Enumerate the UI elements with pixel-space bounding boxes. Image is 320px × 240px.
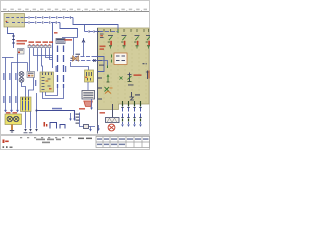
lower feed label [71,58,76,59]
heater element N24 resistor [106,118,120,123]
wire arrow x98.5 [97,125,100,131]
relay plate J519 box [4,14,25,28]
tiny text lower-left of box [99,65,104,66]
wire bus A corner down [73,18,118,30]
tiny text under G2 [128,84,134,85]
ground arrows row [24,129,38,132]
bus row B connector pins [29,21,56,24]
sender G dashed pair left [57,46,59,89]
bus wire row A (terminal 30) [25,17,74,19]
wire plug feeder [73,38,75,56]
wire arrow x90 [89,127,92,132]
injector N30 [108,36,113,49]
bulb M1 [19,72,24,77]
harness connector stack 3 [133,104,136,127]
wire vertical track1 [5,58,7,111]
connector pair on block feed [89,30,94,33]
dashed feed row upper into block [75,56,98,58]
wire L inside block [98,57,104,72]
wire regulator to motor [87,82,89,90]
terminal designation text block [76,114,81,124]
lamp unit labels (red) [6,112,17,114]
upper feed label [76,54,81,55]
wire vertical track3 [17,54,19,111]
junction box bottom [80,113,96,129]
wire vertical track2 with corner [12,63,28,111]
harness connector stack 1 [121,104,124,127]
relay plate terminal row 30 [6,17,24,19]
wire horizontal y37 [62,37,78,39]
wire label pair mid [56,66,67,72]
page frame [1,1,150,150]
feed wire inside block dashed [99,31,118,33]
shading block border [98,28,150,110]
wire drop x52 [52,23,54,69]
label at wire drop (red) [54,32,58,34]
sensor G40 up-arrow [107,74,110,82]
fuse pins top caps [23,98,29,101]
red mark bottom left-mid [44,122,48,127]
bulb L2 in unit [14,116,19,121]
injector N33 [146,36,151,49]
interior shading block (olive) [98,28,150,110]
injector N32 [134,36,139,49]
right edge component [146,71,150,80]
dashed feed row lower into block [70,60,98,62]
ground bar marks [24,132,33,134]
bottom-left page dots [3,146,13,148]
equipotential wire label [52,108,62,110]
fuse S5 mark [6,21,8,22]
relay plate terminal row 15 [6,22,24,24]
instrument tan mark [46,80,49,82]
ground staple W2 [60,125,65,129]
wire bus B corner down [60,23,78,38]
connector T1a marks [12,36,15,43]
wire arrow x74 [73,119,76,122]
label J59 (red) [17,40,28,45]
harness connector stack 2 [127,104,130,127]
green cap on drop wire [117,30,119,34]
bottom caption text centre [36,139,61,144]
wire into block row [85,31,98,33]
label V7 (red) [79,108,85,110]
wire motor down arrow [90,99,93,110]
wire loop under instrument inner [46,88,58,96]
lamp unit box (big yellow) [5,114,22,125]
switch E4 cluster [27,72,35,78]
label row above connector strip (red) [29,41,54,43]
connector x-symbols on feeds [73,56,96,62]
fuse elements [23,101,29,111]
bottom caption text left of table [78,138,92,140]
injector N31 [121,36,126,49]
motor V symbol (red) [84,101,93,106]
bottom schematic border line [1,134,149,136]
wire long vertical x36 [36,93,38,129]
wire far-left horizontal [2,57,14,59]
wire bulbs down [22,82,26,97]
regulator red tick [85,77,87,78]
thermo switch F87 [130,92,141,100]
wire to bulb cluster [27,63,29,72]
label rows mid-block (red) [100,46,106,50]
ground staple W1 [50,123,57,129]
wire from relay plate down [8,27,14,48]
wire from switch down [29,78,34,98]
harness connector stack 4 [139,104,142,127]
wire stub inside block [98,61,108,69]
instrument red mark [49,88,52,90]
ground lead below lamp unit [11,125,13,131]
wire colour labels track1 [3,73,16,103]
wire loop under instrument outer [43,88,64,99]
wire to regulator box [71,62,89,70]
top ruler line [1,11,149,13]
block pin entries left edge [98,32,102,100]
sensor G28 small [120,77,123,80]
connector strip T6 [28,45,51,47]
page background [0,0,150,150]
label G2 (red) [134,74,142,76]
sensor cluster G2 [128,73,132,82]
fuse holder box (small yellow) [21,97,32,112]
wire vertical x83 with chevron [82,38,85,57]
bulb L1 in unit [7,116,12,121]
motor V box [82,91,95,100]
wire arrows above fuse box [4,110,19,113]
control unit connector box [114,53,127,65]
sender connector top [56,39,65,44]
top track-number text row [3,9,147,11]
label G32 (red) [65,39,73,41]
wires from strip into bus [30,48,53,72]
node junction T4 [84,25,86,32]
bus row A connector pins [29,16,70,19]
instrument interior contact rows [42,78,51,90]
block top pin caps [104,29,149,32]
heater element N24 lead [112,104,114,117]
heated sensor G62 [105,87,113,94]
regulator box (yellow) [85,70,94,82]
regulator pins [87,72,92,81]
label bottom-block (red) [100,112,106,114]
bus wire row B (terminal 15) [25,22,61,24]
shading grid dashed verticals [104,29,146,103]
instrument pins top [43,73,52,76]
top ruler ticks [8,10,141,11]
relay contact marks top-left of block [100,34,104,38]
instrument box (pale yellow tall) [40,72,54,92]
interior block left dark edge wire [97,28,99,134]
tiny marks right-mid [143,63,148,64]
track numbers below bottom line [20,137,71,138]
bulb M3 [19,77,24,82]
wires below fuse holder [26,112,31,129]
junction dot [36,110,38,112]
ground terminal mark [10,131,14,133]
pump symbol (red) [108,124,115,131]
legend table bottom right [96,137,150,148]
sender G dashed pair right [63,46,65,89]
block bottom connector caps [123,101,141,105]
wire stub x70 [69,113,72,121]
long equipotential wire [37,111,75,119]
bottom-left red mark [3,140,9,144]
switch E1 cluster [18,49,25,55]
connector strip red tips [29,44,51,45]
box input pins green [111,55,113,63]
wire label mid [35,80,36,86]
legend table text [97,138,149,145]
